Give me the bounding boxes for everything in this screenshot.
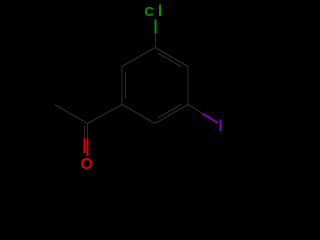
svg-text:O: O [81,156,93,173]
svg-text:C: C [145,4,154,19]
